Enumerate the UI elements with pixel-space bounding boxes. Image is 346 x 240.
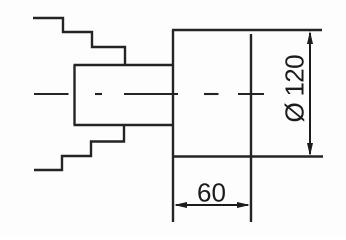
gripped shaft bottom edge [74,124,174,126]
gripped shaft top edge [74,64,174,66]
svg-text:Ø 120: Ø 120 [280,55,310,123]
dimension line Ø120 [307,31,313,156]
centerline dash 4 [204,93,219,95]
workpiece left face / extension line [172,30,174,222]
workpiece bottom edge [172,155,323,157]
gripped shaft left edge [73,65,75,125]
centerline dash 2 [95,93,102,95]
chuck jaw break line (top staircase) [33,18,125,65]
chuck jaw break line (bottom staircase) [34,125,124,170]
centerline dash 1 [34,93,69,95]
centerline dash 3 [124,93,178,95]
dimension line 60 [174,202,250,208]
svg-text:60: 60 [197,178,226,208]
workpiece top edge [172,29,322,31]
centerline dash 5 [238,93,264,95]
cut length face line / extension line [250,34,252,222]
